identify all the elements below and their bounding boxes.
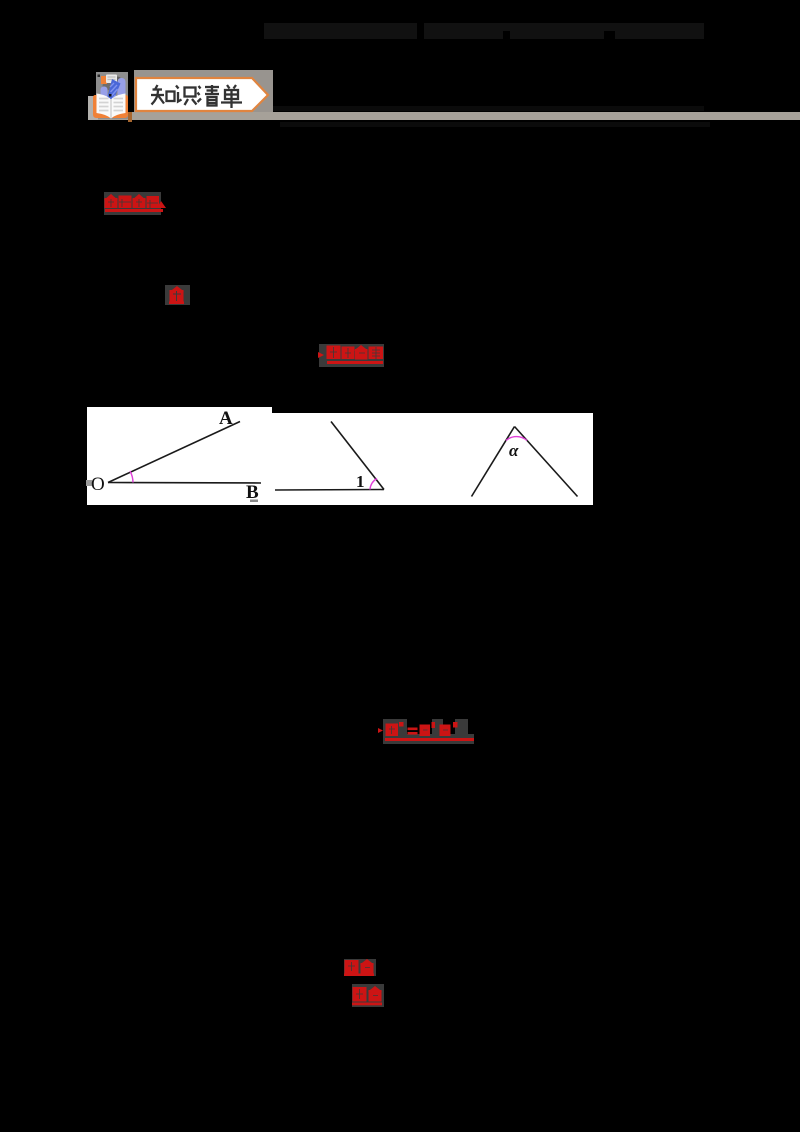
book shadow nub on rule xyxy=(128,112,132,122)
book icon xyxy=(86,68,136,126)
icon light gray lower-left xyxy=(88,96,98,120)
icon book text lines xyxy=(99,99,123,111)
title bar notch 1 xyxy=(503,31,510,39)
icon gray square backdrop xyxy=(96,72,128,119)
icon white tag xyxy=(106,75,117,84)
gray halo behind banner xyxy=(134,70,273,118)
svg-text:1: 1 xyxy=(356,472,365,491)
icon gray cloud blob right xyxy=(113,77,122,86)
banner pentagon xyxy=(136,78,268,111)
char 清 xyxy=(198,85,220,106)
red formula text xyxy=(378,720,478,744)
angle alpha: magenta arc xyxy=(506,437,527,441)
angle alpha: left leg xyxy=(472,427,515,497)
red word 1 highlight xyxy=(344,959,376,976)
white figure block left xyxy=(87,407,272,505)
red heading 1 highlight xyxy=(104,192,161,215)
title bar segment 2 xyxy=(424,23,704,39)
red single char xyxy=(167,286,187,305)
title bar segment 1 (dark redacted text block) xyxy=(264,23,417,39)
angle AOB: magenta arc xyxy=(130,471,133,483)
angle AOB: ray OA xyxy=(108,422,240,483)
red word 1 xyxy=(343,959,377,977)
red word 2 xyxy=(351,985,385,1007)
icon left blue bar xyxy=(101,87,108,100)
icon blue pencil diagonal xyxy=(108,79,121,102)
svg-text:α: α xyxy=(509,441,519,460)
gray dash under B xyxy=(250,500,258,503)
char 知 xyxy=(151,85,175,105)
svg-text:A: A xyxy=(219,408,233,429)
red word 2 highlight xyxy=(352,984,384,1007)
title bar notch 2 xyxy=(604,31,615,39)
icon open book orange base xyxy=(93,95,128,118)
gray nub left edge xyxy=(86,480,92,486)
angle 1: horizontal ray xyxy=(275,489,384,492)
faint text row above gray rule xyxy=(264,106,704,111)
svg-text:O: O xyxy=(91,474,105,495)
banner 知识清单 xyxy=(130,72,280,118)
faint text row below gray rule xyxy=(280,122,710,127)
white figure block right xyxy=(272,413,593,505)
red heading 2 highlight xyxy=(319,344,384,367)
angle alpha: right leg xyxy=(515,427,578,497)
figure drawings xyxy=(80,400,600,510)
icon right blue bar xyxy=(118,78,126,98)
angle 1: magenta arc xyxy=(370,479,377,490)
red heading 1 (4 chars + underline) xyxy=(103,193,169,215)
angle AOB: ray OB xyxy=(108,482,261,485)
char 识 xyxy=(176,86,197,106)
icon small orange square xyxy=(101,76,107,84)
long gray rule under header xyxy=(96,112,800,120)
char 单 xyxy=(221,85,242,108)
icon black dot on pencil xyxy=(109,94,112,97)
angle 1: slanted ray xyxy=(331,422,384,490)
icon gray cloud blob left xyxy=(103,82,112,91)
icon book white pages xyxy=(97,94,126,119)
icon dark dot xyxy=(98,75,101,78)
red formula highlight boxes xyxy=(383,719,407,744)
red single char highlight xyxy=(165,285,190,305)
red heading 2 (arrow + 4 chars + underline) xyxy=(318,344,388,368)
